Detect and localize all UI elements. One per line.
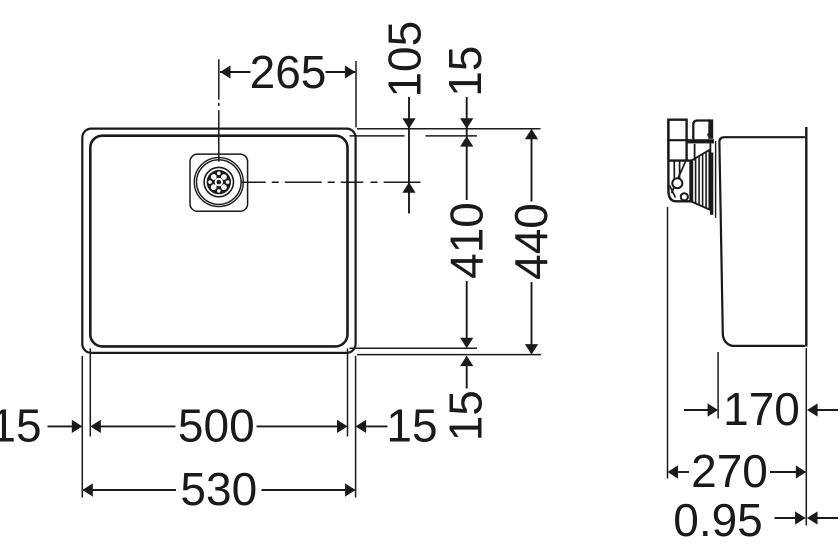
extension line front wall xyxy=(717,352,719,419)
svg-text:410: 410 xyxy=(440,202,492,279)
extension line outer left xyxy=(81,356,83,498)
arrow 440 down xyxy=(525,344,538,355)
arrow 410 down xyxy=(460,338,473,349)
overflow pipe xyxy=(668,120,686,161)
extension line inner right xyxy=(347,349,349,437)
trap body xyxy=(668,119,690,202)
fan ribs xyxy=(695,158,697,203)
dimension 500 line xyxy=(101,425,176,427)
flange band xyxy=(686,139,715,143)
sink bowl inner edge (top view) xyxy=(90,136,347,347)
svg-text:15: 15 xyxy=(386,399,437,451)
pipe divider xyxy=(668,139,686,141)
trap internal verticals xyxy=(673,161,675,180)
svg-text:440: 440 xyxy=(505,203,557,280)
svg-text:15: 15 xyxy=(439,390,491,441)
arrow 105 down xyxy=(402,118,415,129)
strainer center dot xyxy=(217,180,222,185)
extension line inner bottom edge xyxy=(350,347,478,349)
arrow 15 bottom up xyxy=(460,356,473,367)
extension line outer bottom edge xyxy=(357,354,541,356)
dimension 530 line xyxy=(93,489,177,491)
extension line inner left xyxy=(89,349,91,437)
drain strainer ring xyxy=(204,167,233,196)
dimension 15 top line xyxy=(466,97,468,136)
dimension 0.95 line xyxy=(775,517,796,519)
extension line inner top edge xyxy=(350,135,405,137)
svg-text:530: 530 xyxy=(180,463,257,515)
dimension 15 left line xyxy=(48,425,73,427)
arrow 440 up xyxy=(525,129,538,140)
arrow 170 right xyxy=(807,403,818,416)
dimension 105 line xyxy=(408,97,410,214)
dimension 170 line xyxy=(684,409,708,411)
trap circle large xyxy=(672,178,682,188)
arrow 265 left xyxy=(220,65,231,78)
svg-text:500: 500 xyxy=(178,399,255,451)
arrow 0.95 right xyxy=(807,511,818,524)
extension line pipe left xyxy=(667,207,669,479)
drain square flange xyxy=(190,154,248,211)
horizontal centerline from drain xyxy=(242,181,421,183)
arrow 265 right xyxy=(345,65,356,78)
arrow 410 up xyxy=(460,136,473,147)
extension line back wall xyxy=(805,348,807,526)
bowl wall inner thin line xyxy=(715,141,717,218)
svg-text:270: 270 xyxy=(691,445,768,497)
dimension 410 line xyxy=(466,136,468,200)
svg-text:170: 170 xyxy=(723,383,800,435)
arrow 15 left xyxy=(72,420,83,433)
arrow 15 top down xyxy=(460,118,473,129)
bowl profile: rim, front wall, bottom xyxy=(719,137,805,346)
extension line right of 265 xyxy=(355,61,357,127)
hook piece right leg xyxy=(708,119,713,138)
drain second circle xyxy=(197,160,242,205)
svg-text:15: 15 xyxy=(0,399,42,451)
drain outer circle xyxy=(194,158,243,207)
svg-text:0.95: 0.95 xyxy=(673,494,763,546)
arrow 170 left xyxy=(708,403,719,416)
dimension 15 right line xyxy=(366,425,388,427)
dimension 440 line xyxy=(531,139,533,202)
sink outer rim (top view) xyxy=(82,129,355,353)
drain flange bar xyxy=(710,153,713,215)
arrow 15 right xyxy=(356,420,367,433)
bowl back wall xyxy=(805,127,807,347)
strainer holes xyxy=(208,172,229,193)
extension line outer right xyxy=(355,356,357,498)
arrow 500 right xyxy=(337,420,348,433)
arrow 500 left xyxy=(90,420,101,433)
arrow 270 left xyxy=(668,465,679,478)
arrow 270 right xyxy=(796,465,807,478)
trap diagonal short xyxy=(670,186,676,198)
vertical centerline through drain xyxy=(218,59,220,161)
trap circle small xyxy=(681,193,688,200)
drain strainer disc xyxy=(207,170,231,194)
dimension 270 line xyxy=(678,471,690,473)
dimension 15 bottom-right vertical line xyxy=(466,366,468,389)
band legs xyxy=(694,144,696,161)
arrow 105 up xyxy=(402,182,415,193)
arrow 0.95 left xyxy=(795,511,806,524)
svg-text:265: 265 xyxy=(250,46,327,98)
dimension 265 line xyxy=(220,71,251,73)
hook piece tick xyxy=(707,133,710,136)
svg-text:105: 105 xyxy=(378,21,430,98)
arrow 530 right xyxy=(345,483,356,496)
hook piece inner slit xyxy=(696,123,709,139)
extension line outer top edge xyxy=(357,128,541,130)
svg-text:15: 15 xyxy=(439,46,491,97)
trap diagonal xyxy=(672,162,686,194)
hook piece outer xyxy=(693,121,710,140)
drain cone fan xyxy=(692,150,709,210)
arrow 530 left xyxy=(82,483,93,496)
